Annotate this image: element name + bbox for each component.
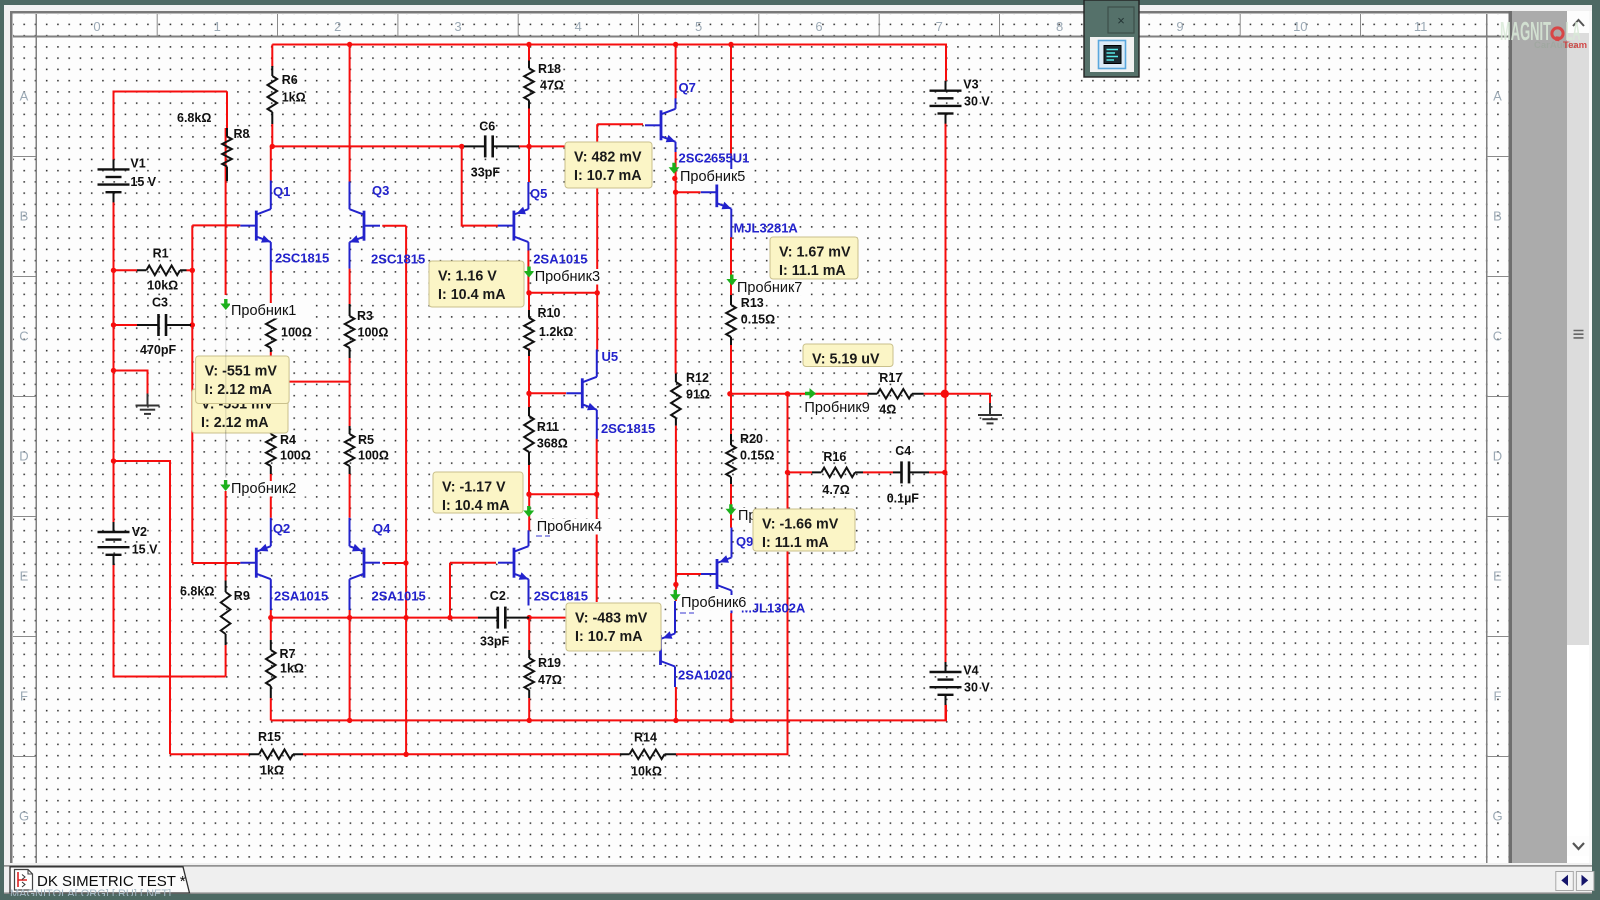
wire: R7 bottom to bottom rail corner: [270, 698, 272, 720]
tab bar top border: [4, 865, 1592, 866]
svg-text:Пробник6: Пробник6: [681, 595, 746, 611]
wire: bottom negative rail: [271, 705, 946, 721]
svg-text:R16: R16: [823, 450, 846, 464]
svg-text:R11: R11: [537, 420, 559, 434]
resistor R4: [266, 426, 311, 474]
svg-text:1kΩ: 1kΩ: [282, 91, 306, 105]
wire: R8 red lead from corner: [226, 92, 228, 129]
sheet tab DK SIMETRIC TEST: [10, 867, 190, 893]
transistor Q6 2SC1815: [498, 530, 588, 605]
wire: V4 bottom stub to bottom rail: [945, 705, 947, 721]
svg-text:368Ω: 368Ω: [537, 437, 568, 451]
resistor R10: [524, 306, 573, 356]
svg-text:15 V: 15 V: [132, 543, 158, 557]
wire: R11 bottom to emitter row: [528, 465, 530, 494]
sheet outer border right: [1509, 11, 1513, 863]
wire: driver base wire to output NPN: [676, 191, 701, 193]
wire: zobel row from output column: [788, 471, 813, 473]
wire: probe2 to R9 top: [225, 491, 227, 581]
svg-text:5: 5: [695, 19, 702, 34]
svg-text:4.7Ω: 4.7Ω: [822, 483, 849, 497]
wire: R12 column: [675, 192, 677, 373]
wire: R1 left lead: [114, 269, 138, 271]
capacitor C6: [464, 120, 519, 180]
resistor R16: [812, 450, 863, 497]
svg-text:Пробник9: Пробник9: [804, 400, 869, 416]
resistor R15: [249, 730, 303, 778]
svg-text:3: 3: [454, 19, 461, 34]
svg-text:9: 9: [1176, 19, 1183, 34]
svg-text:B: B: [1493, 209, 1502, 224]
svg-text:V: -551 mV: V: -551 mV: [205, 364, 278, 380]
probe6 dashed attach mark: [680, 612, 694, 614]
ground near C3: [136, 394, 160, 414]
svg-text:100Ω: 100Ω: [358, 326, 389, 340]
wire: V3- common column: [945, 124, 947, 663]
wire: U5 base wire: [529, 392, 566, 394]
wire: Q1 base wire: [192, 224, 240, 226]
svg-text:0: 0: [93, 19, 100, 34]
ground at output common: [978, 403, 1002, 423]
wire: R18 top lead: [528, 45, 530, 61]
svg-text:100Ω: 100Ω: [358, 449, 389, 463]
svg-text:R6: R6: [282, 73, 298, 87]
svg-text:V: 482 mV: V: 482 mV: [574, 150, 642, 166]
wire: Q4 collector to C2 node: [349, 610, 351, 618]
battery V3: [930, 78, 991, 124]
svg-text:470pF: 470pF: [140, 343, 176, 357]
svg-text:Team: Team: [1563, 40, 1587, 51]
sheet outer border top: [10, 11, 1512, 14]
svg-text:2SC1815: 2SC1815: [371, 252, 425, 267]
svg-text:6.8kΩ: 6.8kΩ: [177, 111, 211, 125]
wire: feedback column x=406: [405, 226, 407, 755]
floating panel button with icon: [1090, 37, 1134, 72]
side ruler section dividers: [13, 157, 1509, 757]
svg-text:U5: U5: [602, 349, 619, 364]
svg-text:R10: R10: [538, 306, 561, 320]
junction dots group 3: [268, 615, 273, 620]
probe1 ghost stem: [225, 311, 227, 478]
wire: R12 bottom to Q9 base node: [675, 426, 677, 601]
svg-text:C: C: [19, 329, 28, 344]
svg-text:2SC1815: 2SC1815: [601, 421, 655, 436]
wire: V1+ to R8 top corner: [114, 92, 228, 161]
down chevron: [1573, 843, 1584, 849]
measurement box probe1: [196, 356, 290, 404]
measurement box probe7: [770, 237, 858, 279]
wire: Q7 collector from rail: [675, 45, 677, 99]
transistor Q1 2SC1815: [240, 181, 329, 271]
svg-text:Q9: Q9: [736, 534, 753, 549]
svg-text:Q7: Q7: [679, 80, 696, 95]
wire: R20 bottom to Q9 emitter: [730, 484, 732, 528]
measurement box probe9: [803, 344, 893, 368]
wire: V1- down left column: [113, 202, 115, 522]
svg-text:I: 10.4 mA: I: 10.4 mA: [442, 498, 510, 514]
svg-text:I: 10.7 mA: I: 10.7 mA: [574, 168, 642, 184]
svg-text:I: 11.1 mA: I: 11.1 mA: [762, 535, 829, 551]
measurement box probe4: [433, 472, 523, 514]
transistor Q4 2SA1015: [350, 518, 426, 610]
sheet outer border left: [10, 11, 13, 863]
resistor R3: [345, 304, 389, 358]
vertical scrollbar track: [1567, 11, 1589, 863]
wire: Q6 collector feed with probe4: [528, 494, 530, 530]
resistor R6: [268, 66, 306, 124]
svg-text:Пробник5: Пробник5: [680, 169, 745, 185]
wire: C4 right lead to common: [929, 471, 945, 473]
wire: Q8 collector to bottom rail: [675, 687, 677, 720]
wire: R15-R14 middle segment: [303, 753, 621, 755]
up chevron: [1573, 20, 1584, 26]
svg-text:8: 8: [1056, 19, 1063, 34]
wire: Q7 base column down to VAS: [596, 124, 598, 349]
wire: R14 right up to output node: [676, 394, 788, 755]
svg-text:1kΩ: 1kΩ: [280, 662, 304, 676]
transistor Q3 2SC1815: [350, 182, 426, 269]
transistor Q5 2SA1015: [498, 182, 588, 267]
wire: R10 top lead wire: [528, 293, 530, 310]
wire: R20 top lead wire: [730, 394, 732, 434]
wire: probe1 stub from R8: [225, 128, 227, 295]
svg-text:Пробник3: Пробник3: [535, 269, 600, 285]
resistor R12: [671, 371, 710, 426]
svg-text:30 V: 30 V: [964, 95, 990, 109]
wire: U5 emitter red: [596, 439, 598, 495]
svg-text:I: 10.7 mA: I: 10.7 mA: [575, 629, 643, 645]
svg-text:A: A: [1493, 89, 1502, 104]
svg-text:F: F: [1494, 689, 1502, 704]
svg-text:V1: V1: [130, 157, 145, 171]
wire: common to ground 2: [945, 394, 990, 404]
measurement box probe3: [429, 261, 524, 307]
svg-text:Пробник7: Пробник7: [737, 280, 802, 296]
svg-text:R18: R18: [538, 62, 561, 76]
svg-text:Пробник1: Пробник1: [231, 303, 296, 319]
svg-text:2SA1015: 2SA1015: [274, 589, 328, 604]
battery V1: [98, 157, 157, 203]
wire: C3 right lead wire: [190, 324, 192, 326]
svg-text:C2: C2: [490, 589, 506, 603]
wire: link Q5 collector to VAS column: [529, 292, 597, 294]
resistor R1: [137, 247, 187, 293]
wire: emitter join row y=381.6: [271, 381, 350, 383]
svg-text:0.15Ω: 0.15Ω: [740, 449, 774, 463]
big junction dot at output common: [941, 390, 949, 398]
wire: R4 top feed: [270, 382, 272, 426]
svg-text:D: D: [1493, 449, 1502, 464]
wire: R13 bottom to output node: [730, 345, 732, 394]
probe arrow Пробник1: [220, 299, 309, 319]
resistor R14: [620, 731, 676, 779]
svg-text:V: -1.66 mV: V: -1.66 mV: [762, 517, 839, 533]
svg-text:V2: V2: [132, 525, 147, 539]
svg-text:B: B: [20, 209, 29, 224]
svg-text:91Ω: 91Ω: [686, 388, 710, 402]
junction dots group 1: [111, 268, 116, 273]
svg-text:Пробник2: Пробник2: [231, 481, 296, 497]
wire: node V- tap to R15 column: [114, 461, 171, 754]
svg-text:6.8kΩ: 6.8kΩ: [180, 585, 214, 599]
resistor R7: [266, 640, 304, 698]
wire: R9 bottom lead to corner: [225, 645, 227, 677]
wire: node row y=146 R6..C6: [272, 145, 463, 147]
transistor U5 2SC1815: [566, 349, 655, 439]
wire: Q9 collector to bottom rail: [730, 613, 732, 720]
svg-text:V4: V4: [963, 664, 978, 678]
svg-text:Q1: Q1: [273, 184, 290, 199]
svg-text:I: 10.4 mA: I: 10.4 mA: [438, 287, 506, 303]
wire: R5 top feed: [349, 382, 351, 426]
ruler inner line top: [13, 36, 1509, 38]
svg-text:R5: R5: [358, 433, 374, 447]
svg-text:1.2kΩ: 1.2kΩ: [539, 325, 573, 339]
wire: Q7 base wire: [597, 123, 643, 125]
svg-text:V: 1.16 V: V: 1.16 V: [438, 269, 497, 285]
svg-text:D: D: [19, 449, 28, 464]
battery V2: [98, 522, 159, 565]
svg-text:R3: R3: [357, 309, 373, 323]
wire: output NPN emitter to probe7: [730, 237, 732, 295]
measurement box probe2: [192, 389, 288, 433]
wire: Q6 base corner down to C2 node: [449, 563, 451, 618]
resistor R11: [524, 407, 568, 465]
svg-text:R9: R9: [234, 589, 250, 603]
svg-text:I: 11.1 mA: I: 11.1 mA: [779, 263, 846, 279]
wire: R4 bottom to Q2 emitter: [270, 474, 272, 518]
svg-text:R15: R15: [258, 730, 281, 744]
capacitor C2: [478, 589, 529, 649]
scrollbar up button: [1567, 11, 1589, 33]
wire: Q2 collector to C2 node: [270, 610, 272, 618]
probe arrow Пробник4: [523, 506, 613, 535]
measurement box probe8: [753, 509, 855, 551]
wire: R19 bottom to bottom rail: [528, 698, 530, 720]
svg-text:47Ω: 47Ω: [538, 673, 562, 687]
wire: Q4 collector node to bottom rail: [349, 618, 351, 721]
svg-text:0.15Ω: 0.15Ω: [741, 313, 775, 327]
wire: VAS column lower part: [596, 494, 598, 602]
svg-text:V: -483 mV: V: -483 mV: [575, 611, 648, 627]
horizontal scroll right arrow button: [1576, 872, 1594, 891]
wire: R17 right to common column: [924, 393, 945, 395]
wire: R3 bottom to emitter join row: [349, 358, 351, 382]
wire: R1 right lead to base column: [187, 269, 193, 271]
wire: R15 left feed: [170, 753, 249, 755]
wire: output NPN collector from rail: [730, 45, 732, 156]
top ruler section dividers: [157, 14, 1360, 36]
wire: R18 bottom to C6 right: [528, 109, 530, 147]
resistor R2: [266, 304, 312, 352]
wire: input base column x=192: [191, 225, 193, 563]
svg-text:4Ω: 4Ω: [879, 403, 896, 417]
MAGNITOLA logo: [1500, 16, 1587, 51]
probe arrow Пробник6: [670, 590, 753, 611]
svg-text:A: A: [20, 89, 29, 104]
svg-text:10kΩ: 10kΩ: [631, 765, 662, 779]
wire: C2 right to R19: [528, 618, 530, 650]
wire: left column below V2 to R9 bottom: [114, 565, 226, 677]
svg-text:100Ω: 100Ω: [281, 326, 312, 340]
transistor Q2 2SA1015: [240, 518, 328, 610]
svg-text:30 V: 30 V: [964, 681, 990, 695]
transistor Q7 2SC2655: [645, 80, 749, 166]
svg-text:R8: R8: [234, 127, 250, 141]
svg-text:C3: C3: [152, 296, 168, 310]
svg-text:E: E: [1493, 569, 1502, 584]
wire: R2 bottom to emitter join row: [270, 352, 272, 382]
wire: Q6 base wire: [450, 562, 496, 564]
svg-text:V: 5.19 uV: V: 5.19 uV: [812, 352, 880, 368]
wire: ground stub near C3: [114, 371, 148, 394]
ruler inner line right: [1486, 14, 1488, 863]
probe arrow Пробник3: [524, 267, 604, 286]
svg-text:Пробник4: Пробник4: [537, 519, 602, 535]
probe arrow Пробник8: [726, 504, 757, 524]
svg-text:100Ω: 100Ω: [280, 449, 311, 463]
wire: top V+ rail: [272, 45, 946, 81]
vertical scrollbar thumb: [1567, 33, 1589, 645]
wire: C3 left lead wire: [114, 324, 141, 326]
wire: zobel R16 to C4: [863, 471, 893, 473]
probe2 ghost stem: [225, 430, 227, 477]
svg-text:2SC2655U1: 2SC2655U1: [679, 151, 750, 166]
svg-text:4: 4: [575, 19, 582, 34]
wire: C6 right to Q5 emitter: [528, 146, 530, 182]
bottom teal edge: [0, 896, 1600, 900]
capacitor C4: [887, 444, 929, 506]
wire: Q5 collector to probe3 node: [527, 250, 529, 293]
svg-text:E: E: [20, 569, 29, 584]
svg-text:V: 1.67 mV: V: 1.67 mV: [779, 245, 851, 261]
measurement box probe6: [566, 603, 661, 651]
probe arrow Пробник5: [669, 163, 752, 185]
wire: output node row to R17: [730, 393, 868, 395]
svg-text:V3: V3: [963, 78, 978, 92]
resistor R8: [222, 127, 249, 181]
wire: C2 node row y=618: [271, 617, 478, 619]
wire: U5 emitter row: [529, 493, 597, 495]
wire: R5 bottom to Q4 emitter: [349, 474, 351, 518]
svg-text:2SC1815: 2SC1815: [275, 251, 329, 266]
svg-text:33pF: 33pF: [480, 635, 510, 649]
wire: Q3 emitter to R3: [349, 269, 351, 304]
probe arrow Пробник7: [726, 275, 809, 297]
wire: Q7 emitter to driver node: [675, 152, 677, 193]
svg-text:R14: R14: [634, 731, 657, 745]
svg-text:Q5: Q5: [530, 186, 547, 201]
junction dots group 2: [526, 290, 531, 295]
probe arrow Пробник9: [803, 388, 877, 416]
svg-text:C: C: [1493, 329, 1502, 344]
resistor R20: [726, 432, 774, 484]
resistor R5: [345, 426, 389, 474]
svg-text:Q3: Q3: [372, 183, 389, 198]
floating panel: [1084, 0, 1139, 77]
ruler inner line left: [36, 14, 38, 863]
svg-text:47Ω: 47Ω: [540, 79, 564, 93]
wire: Q4 base wire: [382, 562, 406, 564]
transistor Q9 MJL1302A: [701, 528, 753, 614]
svg-text:Q2: Q2: [273, 521, 290, 536]
wire: Q9 base wire: [676, 573, 703, 575]
svg-text:R20: R20: [740, 432, 763, 446]
svg-text:1: 1: [214, 19, 221, 34]
tab bar bottom line: [4, 893, 1592, 894]
capacitor C3: [137, 296, 191, 358]
tab bar / horizontal scrollbar strip: [4, 866, 1592, 894]
svg-text:2SA1015: 2SA1015: [533, 252, 587, 267]
svg-text:×: ×: [1117, 13, 1125, 28]
wire: C2 right node stub behind box: [529, 617, 566, 619]
transistor output transistor MJL3281A: [701, 155, 799, 237]
svg-text:33pF: 33pF: [471, 166, 501, 180]
svg-text:V: -1.17 V: V: -1.17 V: [442, 480, 506, 496]
resistor R13: [726, 295, 775, 345]
tab document icon: [15, 870, 33, 891]
svg-text:R12: R12: [686, 371, 709, 385]
svg-text:0.1µF: 0.1µF: [887, 492, 920, 506]
side ruler letters: [19, 89, 1503, 824]
wire: R11 top lead wire: [528, 393, 530, 407]
svg-text:Q4: Q4: [373, 521, 391, 536]
wire: C6 left down to Q5 base: [462, 146, 498, 225]
svg-text:I: 2.12 mA: I: 2.12 mA: [201, 415, 269, 431]
svg-text:1kΩ: 1kΩ: [260, 764, 284, 778]
probe4 dashed attach mark: [536, 535, 550, 537]
svg-text:C4: C4: [895, 444, 911, 458]
resistor R18: [524, 61, 564, 109]
scrollbar down button: [1567, 836, 1589, 856]
wire: R6 top lead: [271, 45, 273, 68]
measurement box probe5: [565, 142, 652, 188]
svg-text:15 V: 15 V: [130, 175, 156, 189]
transistor Q8 2SA1020: [660, 601, 732, 687]
top ruler numbers: [93, 19, 1427, 34]
svg-text:R4: R4: [280, 433, 296, 447]
wire: R7 top lead wire: [270, 618, 272, 640]
svg-text:6: 6: [815, 19, 822, 34]
svg-text:2SA1015: 2SA1015: [372, 589, 426, 604]
wire: Q3 base wire to feedback column: [382, 225, 406, 227]
svg-text:2SC1815: 2SC1815: [534, 589, 588, 604]
wire: R10 bottom to U5 base node: [528, 349, 530, 394]
svg-text:11: 11: [1414, 19, 1428, 34]
svg-text:10: 10: [1293, 19, 1307, 34]
svg-text:10kΩ: 10kΩ: [147, 279, 178, 293]
svg-text:F: F: [20, 689, 28, 704]
probe arrow Пробник2: [220, 480, 309, 497]
svg-text:MJL3281A: MJL3281A: [734, 221, 799, 236]
scrollbar thumb grip: [1574, 331, 1584, 338]
svg-text:2: 2: [334, 19, 341, 34]
wire: Q1 collector feed: [270, 146, 272, 180]
svg-text:R19: R19: [538, 656, 561, 670]
svg-text:7: 7: [936, 19, 943, 34]
horizontal scroll left arrow button: [1556, 872, 1574, 891]
wire: Q1 emitter down to R2: [270, 270, 272, 304]
svg-text:2SA1020: 2SA1020: [678, 668, 732, 683]
resistor R17: [868, 371, 924, 417]
wire: R6 bottom to C6 node: [271, 124, 273, 146]
svg-text:G: G: [1492, 809, 1502, 824]
resistor R19: [524, 650, 562, 698]
svg-text:R17: R17: [879, 371, 902, 385]
svg-text:C6: C6: [479, 120, 495, 134]
svg-text:G: G: [19, 809, 29, 824]
svg-text:R7: R7: [280, 647, 296, 661]
